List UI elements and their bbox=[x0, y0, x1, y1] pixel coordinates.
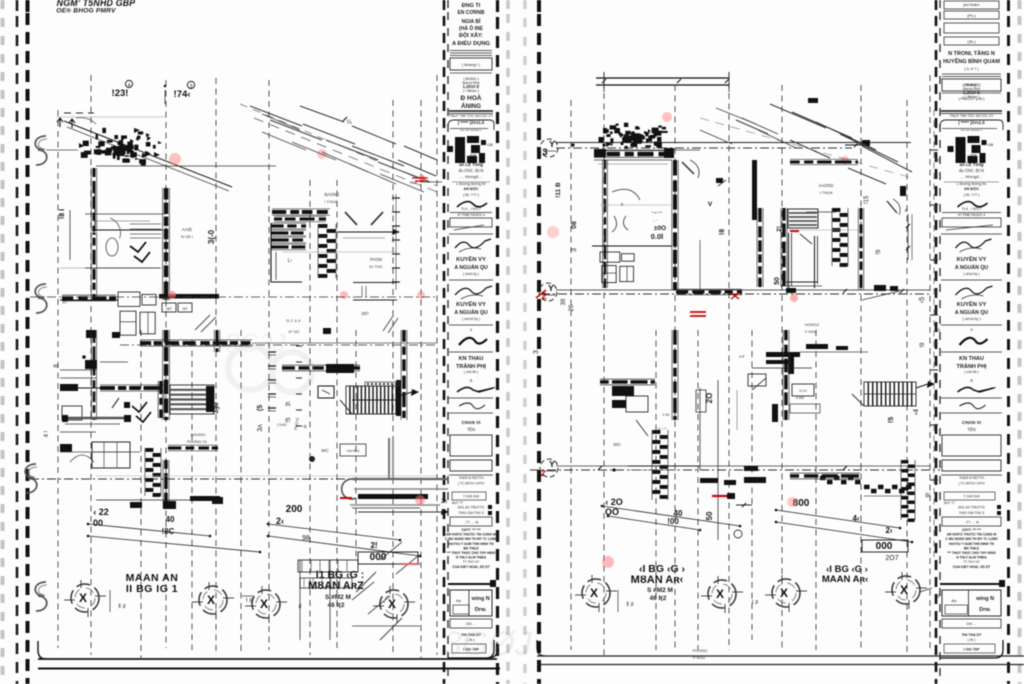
svg-text:Y: Y bbox=[549, 459, 555, 469]
svg-text:N OE I: N OE I bbox=[181, 234, 193, 239]
svg-text:X: X bbox=[388, 597, 396, 611]
svg-text:ÁNING: ÁNING bbox=[461, 103, 481, 110]
svg-text:ĐNG TI: ĐNG TI bbox=[462, 3, 481, 9]
svg-text:TNUT TIM TỐC WO DC 2Y: TNUT TIM TỐC WO DC 2Y bbox=[449, 113, 494, 118]
svg-text:5!: 5! bbox=[936, 328, 942, 332]
svg-text:!9: !9 bbox=[876, 249, 882, 255]
svg-text:3ȝ0: 3ȝ0 bbox=[213, 402, 220, 414]
svg-text:(5: (5 bbox=[257, 405, 264, 411]
svg-text:Aa: Aa bbox=[456, 598, 462, 603]
svg-text:HmThU Y AUM THN HINH TN: HmThU Y AUM THN HINH TN bbox=[449, 542, 495, 546]
svg-text:Drw.: Drw. bbox=[475, 607, 487, 613]
svg-text:S ≠M2 M: S ≠M2 M bbox=[647, 587, 673, 594]
svg-text:Y: Y bbox=[548, 283, 554, 293]
svg-text:1F M2: 1F M2 bbox=[288, 329, 300, 334]
svg-text:50: 50 bbox=[774, 277, 781, 285]
svg-text:( cnb.9b ): ( cnb.9b ) bbox=[464, 370, 478, 374]
svg-text:#7 PMB PAGES 4: #7 PMB PAGES 4 bbox=[457, 213, 484, 217]
svg-text:mini fibui: mini fibui bbox=[347, 449, 360, 453]
svg-text:BUY 77: BUY 77 bbox=[452, 501, 463, 505]
svg-text:I GG 76P: I GG 76P bbox=[964, 648, 980, 652]
svg-text:AN ĐỘC: AN ĐỘC bbox=[964, 186, 979, 191]
svg-text:jed Nden: jed Nden bbox=[962, 2, 979, 7]
svg-text:3: 3 bbox=[542, 147, 547, 158]
svg-text:PHON: PHON bbox=[370, 257, 382, 262]
svg-text:( cnb.9b ): ( cnb.9b ) bbox=[964, 370, 978, 374]
svg-text:( cernd by ): ( cernd by ) bbox=[962, 317, 980, 321]
svg-text:TY THY HY: TY THY HY bbox=[963, 560, 980, 564]
svg-text:10.K!: 10.K! bbox=[799, 389, 807, 393]
svg-text:Drw.: Drw. bbox=[979, 607, 991, 613]
svg-text:..T7 … N: ..T7 … N bbox=[964, 521, 979, 525]
svg-text:TRÀNH PHỊ: TRÀNH PHỊ bbox=[957, 363, 987, 370]
svg-text:Y: Y bbox=[549, 139, 555, 149]
svg-text:S = ?: S = ? bbox=[658, 427, 666, 431]
svg-text:!74‹: !74‹ bbox=[174, 89, 191, 100]
svg-text:4 Mℓ: 4 Mℓ bbox=[663, 413, 671, 417]
svg-text:X: X bbox=[900, 583, 908, 597]
svg-text:GB: GB bbox=[988, 142, 994, 147]
svg-text:Ghi …: Ghi … bbox=[966, 622, 977, 626]
svg-text:( PM/CuT y-M ): ( PM/CuT y-M ) bbox=[959, 97, 986, 101]
svg-text:BUY 77: BUY 77 bbox=[944, 501, 955, 505]
svg-text:… Wơngđ…: … Wơngđ… bbox=[960, 174, 982, 179]
svg-text:DHL AX TRUTTG: DHL AX TRUTTG bbox=[458, 506, 485, 510]
svg-text:KN THAU: KN THAU bbox=[459, 356, 484, 362]
svg-text:X: X bbox=[716, 587, 724, 601]
svg-text:!8: !8 bbox=[719, 229, 726, 235]
svg-text:TL4…/ 87L7: TL4…/ 87L7 bbox=[962, 207, 982, 211]
svg-text:I ♯: I ♯ bbox=[752, 599, 758, 606]
svg-text:( ***** )2Vx1.5: ( ***** )2Vx1.5 bbox=[958, 120, 985, 125]
svg-text:287: 287 bbox=[361, 311, 369, 316]
svg-text:HONG2: HONG2 bbox=[805, 322, 820, 327]
svg-text:‹ 2O: ‹ 2O bbox=[605, 497, 623, 507]
svg-text:2O7: 2O7 bbox=[885, 555, 898, 562]
svg-text:50: 50 bbox=[705, 511, 714, 520]
svg-text:I THUA: I THUA bbox=[324, 199, 337, 204]
svg-text:F NGU: F NGU bbox=[805, 330, 817, 334]
svg-text:‹: ‹ bbox=[935, 388, 937, 394]
svg-text:˚˗˗ ″: ˚˗˗ ″ bbox=[652, 218, 658, 223]
svg-text:3ʌ: 3ʌ bbox=[257, 424, 264, 432]
svg-text:‖ ♯: ‖ ♯ bbox=[626, 601, 633, 608]
svg-text:BAONG: BAONG bbox=[324, 192, 339, 197]
svg-text:…oup: …oup bbox=[966, 152, 977, 157]
svg-text:Aa: Aa bbox=[951, 598, 957, 603]
svg-text:3: 3 bbox=[190, 84, 193, 90]
svg-text:40: 40 bbox=[166, 515, 175, 524]
svg-text:( timang? ): ( timang? ) bbox=[462, 63, 481, 67]
svg-text:TÊN: TÊN bbox=[967, 427, 975, 432]
svg-text:‹4: ‹4 bbox=[913, 409, 920, 415]
svg-text:( smd by ): ( smd by ) bbox=[964, 272, 980, 276]
svg-text:*** THUY THUC CHO THY HING: *** THUY THUC CHO THY HING bbox=[947, 551, 996, 555]
svg-text:THER Đ RETTH: THER Đ RETTH bbox=[959, 476, 984, 480]
svg-text:!00: !00 bbox=[667, 517, 679, 526]
svg-text:3: 3 bbox=[533, 350, 540, 354]
svg-text:A NGUẢN QU: A NGUẢN QU bbox=[955, 309, 988, 316]
svg-text:2‹: 2‹ bbox=[885, 526, 892, 535]
svg-text:08: 08 bbox=[571, 221, 578, 229]
svg-text:(Ph.): (Ph.) bbox=[967, 13, 976, 18]
svg-text:C MU NUNG NHI TH WY TI: LUNH: C MU NUNG NHI TH WY TI: LUNH bbox=[445, 537, 498, 541]
svg-text:!5: !5 bbox=[286, 417, 292, 423]
svg-text:3GØJ: 3GØJ bbox=[443, 625, 533, 663]
svg-text:00: 00 bbox=[93, 518, 103, 528]
svg-text:HmThU Y AUM THN HINH TN: HmThU Y AUM THN HINH TN bbox=[949, 542, 995, 546]
svg-text:TNUT TIM TỐC WO DC 2Y: TNUT TIM TỐC WO DC 2Y bbox=[950, 113, 995, 118]
svg-text:IG THC: IG THC bbox=[369, 264, 383, 269]
svg-text:‖ ♯: ‖ ♯ bbox=[118, 603, 125, 610]
svg-text:0.0l: 0.0l bbox=[651, 232, 664, 241]
svg-text:N THLY ALM THIEA: N THLY ALM THIEA bbox=[956, 556, 987, 560]
svg-text:( TC WITH I HITH: ( TC WITH I HITH bbox=[458, 482, 485, 486]
svg-text:MAAN Aʀ‹: MAAN Aʀ‹ bbox=[822, 574, 868, 585]
svg-text:MȢAN AʀZ: MȢAN AʀZ bbox=[308, 580, 364, 592]
svg-text:#7 PMB PAGES 4: #7 PMB PAGES 4 bbox=[958, 213, 985, 217]
svg-text:2!: 2! bbox=[370, 541, 377, 550]
svg-text:I ♯: I ♯ bbox=[246, 597, 252, 604]
svg-text:N THLY ALM THIEA: N THLY ALM THIEA bbox=[456, 556, 487, 560]
svg-text:CHAT: CHAT bbox=[277, 423, 288, 427]
svg-text:000: 000 bbox=[370, 552, 387, 563]
svg-text:X: X bbox=[590, 586, 598, 600]
svg-text:(HÀ Ô INE: (HÀ Ô INE bbox=[459, 24, 484, 32]
svg-text:2ʌ: 2ʌ bbox=[441, 499, 447, 505]
svg-text:KN THAU: KN THAU bbox=[959, 356, 984, 362]
svg-text:il: il bbox=[470, 327, 472, 332]
svg-text:!8C: !8C bbox=[162, 527, 175, 536]
svg-text:S ≠M2 M: S ≠M2 M bbox=[325, 594, 351, 601]
svg-text:wing N: wing N bbox=[975, 596, 994, 602]
svg-text:an LẾ Tổng: an LẾ Tổng bbox=[459, 162, 483, 167]
svg-text:200: 200 bbox=[286, 504, 303, 515]
svg-text:!5 C & #: !5 C & # bbox=[286, 318, 301, 323]
svg-text:BN THILE: BN THILE bbox=[463, 546, 479, 550]
svg-text:9!: 9! bbox=[926, 492, 932, 497]
svg-text:DHL AX TRUTTG: DHL AX TRUTTG bbox=[958, 506, 985, 510]
svg-text:L Đương đường 5n: L Đương đường 5n bbox=[456, 182, 485, 186]
svg-text:PHONG 01: PHONG 01 bbox=[187, 439, 208, 444]
svg-text:X: X bbox=[780, 586, 788, 600]
svg-text:46 Ʀ2: 46 Ʀ2 bbox=[328, 602, 345, 609]
svg-text:… Wơngđ…: … Wơngđ… bbox=[460, 174, 482, 179]
svg-text:..T7 … N: ..T7 … N bbox=[464, 521, 479, 525]
svg-text:THER Đ RETTH: THER Đ RETTH bbox=[459, 476, 484, 480]
svg-text:AR KHITO THUTIC TIN CUNG M: AR KHITO THUTIC TIN CUNG M bbox=[947, 533, 997, 537]
svg-text:( b, b.? ): ( b, b.? ) bbox=[964, 67, 979, 71]
svg-text:CHYT. *** ***: CHYT. *** *** bbox=[461, 528, 481, 532]
svg-text:**∗****: **∗**** bbox=[651, 211, 663, 215]
svg-text:…oup: …oup bbox=[466, 152, 477, 157]
svg-text:L‹: L‹ bbox=[288, 258, 293, 264]
svg-text:WC: WC bbox=[321, 448, 329, 453]
svg-text:( ĐL ??? ): ( ĐL ??? ) bbox=[463, 193, 479, 197]
svg-text:!15: !15 bbox=[864, 195, 870, 204]
svg-text:X: X bbox=[207, 593, 215, 607]
svg-text:KUYỄN VY: KUYỄN VY bbox=[456, 256, 486, 263]
svg-text:KUYỄN VY: KUYỄN VY bbox=[957, 256, 987, 263]
svg-text:F✐: F✐ bbox=[739, 354, 745, 359]
svg-text:2: 2 bbox=[541, 469, 546, 478]
svg-text:il: il bbox=[971, 327, 973, 332]
svg-text:±0O: ±0O bbox=[654, 225, 666, 232]
svg-text:wing N: wing N bbox=[471, 596, 490, 602]
svg-text:*** THUY THUC CHO THY HING: *** THUY THUC CHO THY HING bbox=[447, 551, 496, 555]
svg-text:KUYỄN VY: KUYỄN VY bbox=[957, 301, 987, 308]
svg-text:000: 000 bbox=[876, 541, 893, 552]
svg-text:AN ĐỘC: AN ĐỘC bbox=[464, 186, 479, 191]
svg-text:( cernd by ): ( cernd by ) bbox=[462, 317, 480, 321]
svg-text:HUYẼNG BÌNH QUAM: HUYẼNG BÌNH QUAM bbox=[943, 57, 1000, 65]
svg-text:CUA KIET HOAL XD DT: CUA KIET HOAL XD DT bbox=[953, 565, 991, 569]
svg-text:39: 39 bbox=[561, 298, 567, 305]
svg-text:*** *** ******* *: *** *** ******* * bbox=[961, 129, 983, 133]
svg-text:NGUNG: NGUNG bbox=[191, 432, 206, 437]
svg-text:A NGUẢN QU: A NGUẢN QU bbox=[454, 309, 487, 316]
svg-text:THIG GIA THU 3: THIG GIA THU 3 bbox=[959, 511, 984, 515]
svg-text:2‹: 2‹ bbox=[276, 516, 284, 526]
svg-text:KUYỄN VY: KUYỄN VY bbox=[456, 301, 486, 308]
svg-text:TY THY HY: TY THY HY bbox=[463, 560, 480, 564]
svg-text:EN CƠRNB: EN CƠRNB bbox=[457, 10, 484, 16]
svg-text:!11 B: !11 B bbox=[555, 182, 562, 198]
svg-text:AR KHITO THUTIC TIN CUNG M: AR KHITO THUTIC TIN CUNG M bbox=[446, 533, 496, 537]
svg-text:( ***** )2Vx1.5: ( ***** )2Vx1.5 bbox=[458, 120, 485, 125]
svg-text:an LẾ Tổng: an LẾ Tổng bbox=[960, 162, 984, 167]
svg-text:THI THA DT: THI THA DT bbox=[962, 633, 983, 637]
svg-text:GB: GB bbox=[487, 142, 493, 147]
svg-text:X: X bbox=[260, 597, 268, 611]
svg-text:X: X bbox=[79, 591, 87, 605]
svg-text:!23!: !23! bbox=[112, 88, 129, 99]
svg-text:( TC WITH I HITH: ( TC WITH I HITH bbox=[958, 482, 985, 486]
svg-text:CHYT. *** ***: CHYT. *** *** bbox=[962, 528, 982, 532]
svg-text:du Chủ’, Đị N: du Chủ’, Đị N bbox=[459, 168, 484, 173]
svg-text:Đ HOÀ: Đ HOÀ bbox=[461, 93, 482, 102]
svg-text:3: 3 bbox=[571, 248, 578, 252]
svg-text:‹: ‹ bbox=[935, 464, 937, 470]
svg-text:3\: 3\ bbox=[286, 401, 292, 406]
svg-text:ĐỘI XÂY:: ĐỘI XÂY: bbox=[459, 31, 483, 39]
svg-text:AAIE: AAIE bbox=[182, 227, 192, 232]
svg-text:OE® BHOG PMRV: OE® BHOG PMRV bbox=[56, 7, 116, 15]
svg-text:T GHI GHI: T GHI GHI bbox=[463, 495, 479, 499]
svg-text:( ĐL ??? ): ( ĐL ??? ) bbox=[964, 193, 980, 197]
svg-text:V: V bbox=[708, 201, 713, 208]
svg-text:CHAN VI: CHAN VI bbox=[962, 420, 981, 425]
svg-text:A ĐIỂU DỤNG: A ĐIỂU DỤNG bbox=[452, 40, 491, 47]
svg-text:A NGUẢN QU: A NGUẢN QU bbox=[955, 264, 988, 271]
svg-text:du Chủ’, Đị N: du Chủ’, Đị N bbox=[959, 168, 984, 173]
svg-text:*** *** ******* *: *** *** ******* * bbox=[460, 129, 482, 133]
svg-text:3(-0: 3(-0 bbox=[207, 229, 216, 244]
svg-text:WC: WC bbox=[613, 442, 621, 447]
svg-text:TL4…/ 87L7: TL4…/ 87L7 bbox=[461, 207, 481, 211]
svg-text:A NGUẢN QU: A NGUẢN QU bbox=[454, 264, 487, 271]
svg-text:BN THILE: BN THILE bbox=[964, 546, 980, 550]
svg-text:( đn ): ( đn ) bbox=[968, 638, 976, 642]
svg-text:N TRONI, TẦNG N: N TRONI, TẦNG N bbox=[948, 50, 995, 57]
svg-text:II BG IG 1: II BG IG 1 bbox=[126, 583, 178, 595]
svg-text:I THUA: I THUA bbox=[819, 190, 832, 195]
svg-text:♯: ♯ bbox=[299, 603, 302, 610]
svg-text:!8 I: !8 I bbox=[59, 209, 66, 219]
svg-text:‹ 22: ‹ 22 bbox=[93, 507, 109, 517]
svg-text:!87: !87 bbox=[166, 306, 172, 311]
svg-text:26: 26 bbox=[569, 304, 575, 311]
svg-text:NGIA BÍ: NGIA BÍ bbox=[462, 17, 481, 25]
svg-text:‹5: ‹5 bbox=[919, 297, 926, 303]
svg-text:TRÀNH PHỊ: TRÀNH PHỊ bbox=[456, 363, 486, 370]
svg-text:TÊN: TÊN bbox=[467, 427, 475, 432]
svg-text:T GHI GHI: T GHI GHI bbox=[964, 495, 980, 499]
svg-text:4 !: 4 ! bbox=[44, 430, 50, 437]
svg-text:!97: !97 bbox=[182, 306, 188, 311]
svg-text:5!: 5! bbox=[936, 158, 942, 162]
svg-text:( smd by ): ( smd by ) bbox=[463, 272, 479, 276]
svg-text:(3b.): (3b.) bbox=[967, 39, 976, 44]
svg-text:CUA KIET HOAL XD DT: CUA KIET HOAL XD DT bbox=[452, 565, 490, 569]
svg-text:L Đương đường 5n: L Đương đường 5n bbox=[957, 182, 986, 186]
svg-text:THIG GIA THU 3: THIG GIA THU 3 bbox=[458, 511, 483, 515]
svg-text:PHONG: PHONG bbox=[693, 648, 708, 653]
svg-text:!9: !9 bbox=[920, 342, 926, 348]
svg-text:4: 4 bbox=[128, 83, 131, 89]
svg-text:AAONG: AAONG bbox=[818, 183, 833, 188]
svg-text:!5: !5 bbox=[888, 417, 895, 423]
svg-text:( I fillmer ): ( I fillmer ) bbox=[463, 89, 479, 93]
svg-text:C MU NUNG NHI TH WY TI: LUNH: C MU NUNG NHI TH WY TI: LUNH bbox=[945, 537, 998, 541]
svg-text:MȢAN Aʀ‹: MȢAN Aʀ‹ bbox=[631, 574, 684, 586]
svg-text:đ 4Mℓ: đ 4Mℓ bbox=[796, 396, 804, 400]
svg-text:2!: 2! bbox=[776, 226, 783, 232]
svg-text:46 Ʀ2: 46 Ʀ2 bbox=[650, 595, 667, 602]
svg-text:♯: ♯ bbox=[937, 593, 940, 600]
svg-text:98: 98 bbox=[302, 535, 310, 542]
svg-text:CHAN VI: CHAN VI bbox=[462, 420, 481, 425]
svg-text:P NGU: P NGU bbox=[693, 656, 705, 660]
